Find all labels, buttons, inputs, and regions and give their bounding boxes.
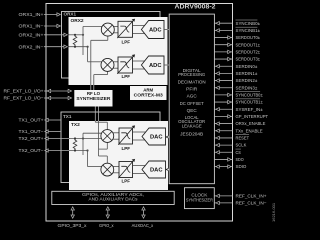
mixer TX Q-channel xyxy=(101,163,114,176)
chip outline ADRV9008-2 package boundary xyxy=(46,4,233,222)
wire ADC I output to digital block xyxy=(164,29,169,31)
pin TX2_OUT- output lead wire xyxy=(19,148,70,153)
svg-text:AND AUXILIARY DACs: AND AUXILIARY DACs xyxy=(89,197,138,202)
pin SERDOUT1± lead wire xyxy=(214,42,260,47)
wire LO feed TX (synthesizer bottom to TX2 box) xyxy=(95,106,98,121)
block digital processing / JESD204B interface xyxy=(169,14,214,184)
svg-text:ORX1_IN+: ORX1_IN+ xyxy=(19,12,44,17)
resistor TX output shunt termination xyxy=(73,139,77,151)
pin SYNCOUTB0± lead wire xyxy=(214,92,263,98)
pin TXx_ENABLE lead wire xyxy=(214,128,262,133)
pin TX1_OUT- output lead wire xyxy=(19,129,62,134)
node junction ORX IN- xyxy=(74,46,76,48)
wire ORX2 IN+ to I-mixer xyxy=(69,27,103,56)
svg-text:AUXDAC_x: AUXDAC_x xyxy=(132,223,154,228)
wire ADC Q output to digital block xyxy=(164,64,169,66)
wire digital block to DAC I xyxy=(166,136,170,139)
resistor ORX input shunt termination xyxy=(73,35,77,47)
block TX2 transmitter (front box) xyxy=(69,121,168,190)
pin SDIO lead wire xyxy=(214,164,246,169)
wire digital block to DAC Q xyxy=(166,168,170,171)
block TX1 transmitter (back box) xyxy=(61,112,160,183)
svg-text:SYNTHESIZER: SYNTHESIZER xyxy=(186,197,213,202)
svg-text:SYNCOUTB0±: SYNCOUTB0± xyxy=(236,93,264,98)
pin RESET lead wire xyxy=(214,135,249,141)
wire LO to TX I-mixer xyxy=(95,121,107,130)
wire DAC to LPF differential pair (TX Q) xyxy=(133,166,146,174)
svg-text:DECIMATION: DECIMATION xyxy=(178,80,206,85)
pin SERDIN3± lead wire xyxy=(214,85,257,90)
svg-text:DAC: DAC xyxy=(150,168,163,174)
wire LPF to ADC differential pair (ORX Q) xyxy=(133,61,145,69)
pin GPIO_3P3_x bidirectional lead wire xyxy=(58,207,88,228)
node junction TX OUT+ xyxy=(74,137,76,139)
dac DAC TX I-channel xyxy=(142,128,166,145)
svg-text:SYNCINB1±: SYNCINB1± xyxy=(236,28,261,33)
wire TX2 I-mixer to OUT+ xyxy=(69,133,102,155)
svg-text:SERDIN3±: SERDIN3± xyxy=(236,85,258,90)
filter LPF TX I-channel xyxy=(118,125,135,144)
svg-text:RESET: RESET xyxy=(236,136,250,141)
svg-text:ORX2_IN−: ORX2_IN− xyxy=(19,44,44,49)
svg-text:TX1: TX1 xyxy=(63,114,72,119)
block clock synthesizer xyxy=(185,188,215,209)
svg-text:SDIO: SDIO xyxy=(236,164,247,169)
svg-text:16216-001: 16216-001 xyxy=(271,202,276,222)
filter LPF TX Q-channel xyxy=(118,159,135,178)
svg-text:REF_CLK_IN−: REF_CLK_IN− xyxy=(236,201,267,206)
svg-text:TX1_OUT+: TX1_OUT+ xyxy=(19,118,44,123)
svg-text:QEC: QEC xyxy=(187,108,197,113)
pin SYNCOUTB1± lead wire xyxy=(214,99,263,105)
svg-text:ORX1: ORX1 xyxy=(64,12,77,17)
svg-text:PROCESSING: PROCESSING xyxy=(178,72,206,77)
svg-text:TXx_ENABLE: TXx_ENABLE xyxy=(236,128,263,133)
pin ORX1_IN- input lead wire xyxy=(19,24,61,29)
label LPF (ORX I) xyxy=(122,40,131,45)
mixer ORX I-channel xyxy=(101,23,114,36)
svg-text:SDO: SDO xyxy=(236,157,245,162)
label LPF (TX Q) xyxy=(122,179,131,184)
svg-text:SERDOUT1±: SERDOUT1± xyxy=(236,42,261,47)
wire LO feed ORX (synthesizer top to ORX2 box) xyxy=(91,85,94,90)
svg-text:ORX2_IN+: ORX2_IN+ xyxy=(19,32,44,37)
svg-text:RF_EXT_LO_I/O−: RF_EXT_LO_I/O− xyxy=(4,96,44,101)
svg-text:SERDIN1±: SERDIN1± xyxy=(236,71,258,76)
svg-text:SERDOUT3±: SERDOUT3± xyxy=(236,57,261,62)
node junction TX OUT- xyxy=(74,149,76,151)
block ARM Cortex-M3 processor xyxy=(130,86,167,100)
figure number 16216-001 (rotated) xyxy=(271,202,276,222)
pin SCLK lead wire xyxy=(214,143,247,148)
wire TX I-mixer LO chain to rail xyxy=(99,142,108,149)
wire TX2 Q-mixer to OUT- xyxy=(69,149,102,166)
pin ORX2_IN+ input lead wire xyxy=(19,32,68,37)
svg-text:TX1_OUT−: TX1_OUT− xyxy=(19,129,44,134)
wire ORX2 IN- to Q-mixer xyxy=(69,46,102,62)
wire DAC to LPF differential pair (TX I) xyxy=(133,132,146,140)
svg-text:ADRV9008-2: ADRV9008-2 xyxy=(175,5,217,11)
svg-text:CORTEX-M3: CORTEX-M3 xyxy=(134,92,164,97)
wire LO to TX Q-mixer xyxy=(99,121,108,163)
pin AUXDAC_x bidirectional lead wire xyxy=(132,207,154,228)
pin TX2_OUT+ output lead wire xyxy=(19,136,70,141)
svg-text:SCLK: SCLK xyxy=(236,143,248,148)
dac DAC TX Q-channel xyxy=(142,161,166,178)
svg-text:AGC: AGC xyxy=(187,94,197,99)
svg-text:LEAKAGE: LEAKAGE xyxy=(182,123,202,128)
pin GP_INTERRUPT lead wire xyxy=(214,114,268,119)
wire mixer to LPF differential pair (ORX I) xyxy=(114,26,119,32)
svg-text:SYNCOUTB1±: SYNCOUTB1± xyxy=(236,100,264,105)
mixer TX I-channel xyxy=(101,130,114,143)
svg-text:ORX2: ORX2 xyxy=(71,18,84,24)
wire mixer to LPF differential pair (TX Q) xyxy=(113,166,119,172)
block ORX1 observation receiver (back box) xyxy=(62,12,161,79)
wire LPF to ADC differential pair (ORX I) xyxy=(133,26,145,34)
pin RF_EXT_LO_I/O- bidirectional lead wire xyxy=(4,96,72,101)
pin REF_CLK_IN- input lead wire xyxy=(214,201,267,206)
svg-text:LPF: LPF xyxy=(122,74,131,79)
title label ADRV9008-2 xyxy=(175,5,217,11)
pin SERDIN0± lead wire xyxy=(214,64,257,69)
pin SDO lead wire xyxy=(214,157,244,162)
label LPF (TX I) xyxy=(122,146,131,151)
pin CS lead wire xyxy=(214,149,241,155)
svg-text:TX2_OUT+: TX2_OUT+ xyxy=(19,136,44,141)
label LPF (ORX Q) xyxy=(122,74,131,79)
pin SYSREF_IN± lead wire xyxy=(214,107,263,112)
svg-text:SERDOUT2±: SERDOUT2± xyxy=(236,49,261,54)
mixer ORX Q-channel xyxy=(101,58,114,71)
svg-text:TX2: TX2 xyxy=(71,122,80,128)
svg-text:PFIR: PFIR xyxy=(186,87,197,92)
svg-text:RF_EXT_LO_I/O+: RF_EXT_LO_I/O+ xyxy=(4,89,44,94)
filter LPF ORX Q-channel xyxy=(117,54,135,73)
block GPIOs auxiliary ADCs and DACs xyxy=(52,191,174,204)
wire mixer to LPF differential pair (TX I) xyxy=(113,133,119,139)
pin GPIO_x bidirectional lead wire xyxy=(99,207,114,228)
pin SERDIN1± lead wire xyxy=(214,71,257,76)
pin SYNCINB0± lead wire xyxy=(214,20,260,26)
svg-text:REF_CLK_IN+: REF_CLK_IN+ xyxy=(236,194,267,199)
pin TX1_OUT+ output lead wire xyxy=(19,118,62,123)
svg-text:LPF: LPF xyxy=(122,40,131,45)
svg-text:SYNTHESIZER: SYNTHESIZER xyxy=(76,96,111,101)
pin ORXx_ENABLE lead wire xyxy=(214,121,265,126)
svg-text:CS: CS xyxy=(236,150,241,155)
pin ORX2_IN- input lead wire xyxy=(19,44,68,49)
svg-text:GPIO_3P3_x: GPIO_3P3_x xyxy=(58,223,88,228)
pin SERDOUT3± lead wire xyxy=(214,57,260,62)
svg-text:JESD204B: JESD204B xyxy=(180,131,203,136)
svg-text:SERDIN2±: SERDIN2± xyxy=(236,78,258,83)
svg-text:DC OFFSET: DC OFFSET xyxy=(180,101,204,106)
block RF LO synthesizer xyxy=(74,90,112,107)
svg-text:SYNCINB0±: SYNCINB0± xyxy=(236,21,261,26)
node junction ORX IN+ xyxy=(74,34,76,36)
svg-text:GPIO_x: GPIO_x xyxy=(99,223,114,228)
pin SERDOUT0± lead wire xyxy=(214,35,260,40)
svg-text:DAC: DAC xyxy=(150,135,163,141)
svg-text:SERDOUT0±: SERDOUT0± xyxy=(236,35,261,40)
svg-text:ADC: ADC xyxy=(149,63,162,69)
adc ADC ORX Q-channel xyxy=(141,56,164,74)
wire LO to ORX Q-mixer xyxy=(94,71,108,85)
wire LO to ORX I-mixer xyxy=(91,36,108,85)
pin REF_CLK_IN+ input lead wire xyxy=(214,194,267,199)
pin ORX1_IN+ input lead wire xyxy=(19,12,61,17)
pin SERDOUT2± lead wire xyxy=(214,49,260,54)
svg-text:LPF: LPF xyxy=(122,146,131,151)
pin RF_EXT_LO_I/O+ bidirectional lead wire xyxy=(4,89,72,94)
pin SERDIN2± lead wire xyxy=(214,78,257,83)
adc ADC ORX I-channel xyxy=(141,21,164,39)
svg-text:LPF: LPF xyxy=(122,179,131,184)
wire mixer to LPF differential pair (ORX Q) xyxy=(113,62,118,68)
svg-text:SERDIN0±: SERDIN0± xyxy=(236,64,258,69)
svg-text:TX2_OUT−: TX2_OUT− xyxy=(19,148,44,153)
svg-text:SYSREF_IN±: SYSREF_IN± xyxy=(236,107,264,112)
pin SYNCINB1± lead wire xyxy=(214,27,260,33)
block ORX2 observation receiver (front box) xyxy=(69,17,168,85)
filter LPF ORX I-channel xyxy=(117,19,135,38)
svg-text:ORX1_IN−: ORX1_IN− xyxy=(19,24,44,29)
svg-text:ADC: ADC xyxy=(149,28,162,34)
svg-text:ORXx_ENABLE: ORXx_ENABLE xyxy=(236,121,266,126)
svg-text:GP_INTERRUPT: GP_INTERRUPT xyxy=(236,114,269,119)
